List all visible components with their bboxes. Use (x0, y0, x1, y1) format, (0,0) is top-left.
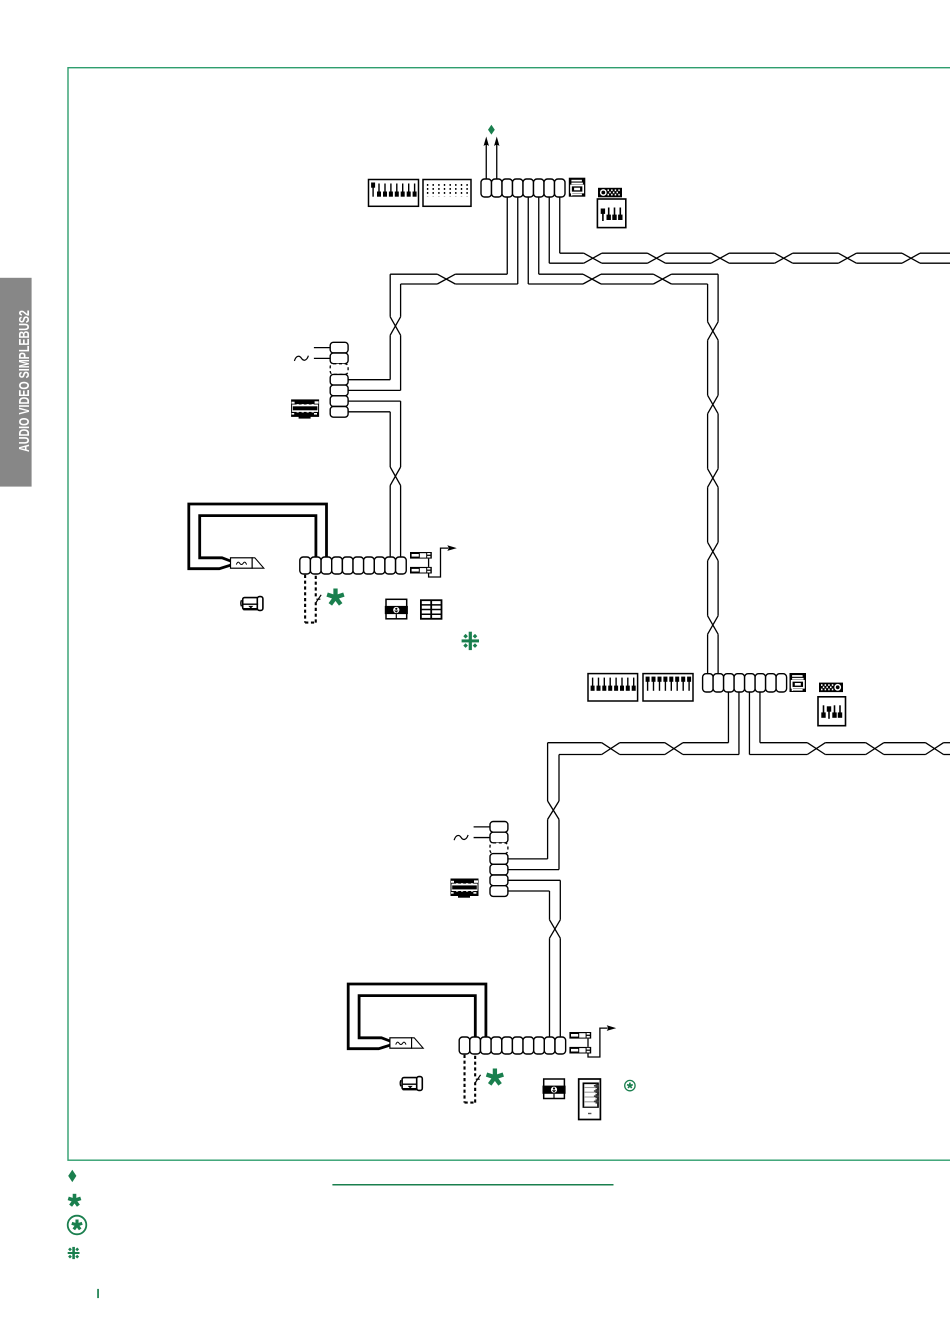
wire twisted pair segment (547, 743, 549, 801)
power supply unit PS2 terminal stack (490, 822, 508, 897)
wire pair twist crossover (775, 253, 793, 263)
wire left branch upper segment (455, 273, 507, 275)
terminal block monitor M1 bracket terminals (10 terminals) (300, 557, 406, 574)
wire distributor link monitor M1 (428, 559, 430, 567)
power supply transformer module PS1 PSU block (292, 400, 319, 419)
riser continuation arrow L out (484, 137, 489, 180)
monitor hook-up unit monitor M1 (231, 558, 264, 568)
wire twisted pair segment (729, 252, 775, 254)
wire from terminal 5 down (527, 197, 529, 284)
wire PS1 terminal5 to riser down (348, 400, 401, 402)
optional local call button wiring (dashed) monitor M2 (465, 1055, 476, 1103)
DIP switch block S5 [uuuuuuuu] (643, 674, 693, 701)
call button switch blade monitor M2 (475, 1075, 480, 1083)
wire pair twist crossover (708, 469, 719, 487)
wire PS2 terminal4 to riser up (508, 869, 559, 871)
wire twisted pair segment (389, 335, 391, 380)
entrance panel with call buttons icon monitor M2 (579, 1079, 601, 1120)
wire twisted pair segment (547, 819, 549, 859)
power supply transformer module PS2 PSU block (451, 879, 478, 898)
wire from terminal 4 down (517, 197, 519, 284)
wire twisted pair segment (707, 487, 709, 542)
door lock actuator icon monitor M1 (241, 597, 263, 611)
call button switch blade monitor M1 (316, 595, 321, 603)
DIP switch block S2 undefined [????????] (423, 180, 471, 207)
wire from terminal 6 down (538, 197, 540, 274)
wire twisted pair segment (707, 340, 709, 395)
note symbol circled asterisk legend (68, 1216, 87, 1235)
svg-text:AUDIO VIDEO SIMPLEBUS2: AUDIO VIDEO SIMPLEBUS2 (16, 310, 33, 452)
wire AC feed N to PS1 (314, 357, 330, 359)
monitor hook-up unit monitor M2 (390, 1038, 423, 1048)
wire twisted pair segment (549, 891, 551, 920)
wire pair twist crossover (602, 743, 620, 755)
note symbol circled asterisk near monitor M2 (625, 1080, 635, 1090)
wire strip2 terminal4 down (738, 692, 740, 755)
wire strip2 terminal5 down (748, 692, 750, 755)
wire twisted pair segment (760, 742, 807, 744)
riser continuation arrow L out 2 (494, 137, 499, 180)
footer page mark (97, 1289, 99, 1298)
wire twisted pair segment (601, 273, 653, 275)
wire pair twist crossover (550, 920, 561, 938)
wire pair twist crossover (648, 253, 666, 263)
wire pair twist crossover (584, 253, 602, 263)
wire twisted pair segment (825, 742, 866, 744)
monitor bracket outline (inner) monitor M2 (359, 996, 475, 1041)
wire pair twist crossover (548, 801, 559, 819)
wire pair twist crossover (926, 743, 944, 755)
wire twisted pair segment (793, 252, 839, 254)
legend separator line (332, 1184, 613, 1186)
AC mains symbol near PS2 (454, 835, 468, 840)
power supply unit PS1 terminal stack (330, 342, 348, 417)
wire twisted pair segment (549, 938, 551, 1037)
wire twisted pair segment (884, 742, 926, 744)
wire distributor to riser continuation monitor M1 (429, 548, 448, 577)
wire pair twist crossover (902, 253, 920, 263)
wire twisted pair segment (944, 742, 950, 744)
wire twisted pair segment (389, 274, 391, 317)
wire from terminal 3 down (506, 197, 508, 274)
wire distributor to riser continuation monitor M2 (588, 1028, 607, 1057)
jumper/connector icon CV top (598, 188, 622, 198)
floor distributor icon monitor M2 lower (569, 1047, 591, 1054)
wire pair twist crossover (708, 542, 719, 560)
wire PS2 terminal3 to riser up (508, 858, 548, 860)
wire pair twist crossover (708, 395, 719, 413)
wire twisted pair segment (560, 252, 584, 254)
mixer/video module icon second (790, 673, 807, 692)
note symbol asterisk monitor M1 (327, 589, 344, 605)
wire twisted pair segment (671, 273, 718, 275)
wire left branch lower segment (455, 283, 517, 285)
mixer/video module icon top (569, 178, 586, 197)
note symbol dotted cross mid (462, 632, 479, 650)
continuation arrow monitor M2 (607, 1025, 617, 1031)
wire PS2 terminal6 to riser down (508, 890, 550, 892)
wire pair twist crossover (807, 743, 825, 755)
wire PS1 terminal4 to riser up (348, 389, 401, 391)
wire left branch lower (401, 283, 438, 285)
optional local call button wiring (dashed) monitor M1 (305, 575, 316, 623)
terminal block monitor M2 bracket terminals (10 terminals) (459, 1037, 565, 1054)
wire twisted pair segment (602, 252, 648, 254)
continuation arrow monitor M1 (447, 545, 457, 551)
wire pair twist crossover (708, 322, 719, 340)
diagram frame border (68, 68, 950, 1161)
wire twisted pair segment (707, 284, 709, 322)
note symbol asterisk legend (68, 1194, 81, 1206)
wire twisted pair segment (683, 742, 729, 744)
wire AC feed L to PS1 (314, 347, 330, 349)
wire twisted pair segment (856, 252, 902, 254)
wire twisted pair segment (548, 742, 602, 744)
floor distributor icon monitor M1 upper (410, 552, 432, 559)
wire pair twist crossover (653, 274, 671, 284)
note symbol diamond top riser (488, 125, 495, 135)
wire strip2 terminal6 down (759, 692, 761, 743)
wire twisted pair segment (389, 485, 391, 557)
wire twisted pair segment (707, 414, 709, 469)
wire PS1 terminal6 to riser down (348, 411, 390, 413)
jumper/connector icon CV second (819, 683, 843, 693)
wire twisted pair segment (666, 252, 712, 254)
DIP switch block S6 second [dudd] (818, 697, 846, 726)
wire pair twist crossover (838, 253, 856, 263)
wire AC feed L to PS2 (474, 826, 490, 828)
note symbol diamond legend diamond (68, 1170, 76, 1182)
wire twisted pair segment (389, 412, 391, 467)
wire left branch upper (390, 273, 437, 275)
wire AC feed N to PS2 (474, 837, 490, 839)
wire pair twist crossover (390, 317, 400, 335)
wire distributor link monitor M2 (587, 1039, 589, 1047)
wire from terminal 7 down (548, 197, 550, 263)
monitor bracket outline (outer) monitor M1 (189, 504, 327, 569)
wire pair twist crossover (583, 274, 601, 284)
AC mains symbol near PS1 (294, 356, 308, 361)
DIP switch block S3 top [uddd] (597, 199, 625, 228)
door lock actuator icon monitor M2 (400, 1077, 422, 1091)
monitor bracket outline (inner) monitor M1 (200, 516, 316, 561)
wire pair twist crossover (437, 274, 455, 284)
wire strip2 terminal3 down (727, 692, 729, 743)
floor distributor icon monitor M1 lower (410, 567, 432, 574)
wire twisted pair segment (707, 561, 709, 616)
terminal block TS-top (8 terminals) (481, 179, 565, 197)
monitor bracket outline (outer) monitor M2 (348, 984, 486, 1049)
wire pair twist crossover (665, 743, 683, 755)
note symbol asterisk monitor M2 (487, 1069, 504, 1085)
wire PS1 terminal3 to riser up (348, 379, 390, 381)
entrance panel speaker module icon monitor M2 (543, 1079, 566, 1099)
wire from terminal 8 down (559, 197, 561, 253)
wire twisted pair segment (707, 634, 709, 674)
terminal block TS-2 (8 terminals) (703, 674, 787, 692)
wire twisted pair segment (539, 273, 583, 275)
page sidebar tab AUDIO VIDEO SIMPLEBUS2 (0, 278, 33, 487)
DIP switch block S4 [dddddddd] (588, 674, 638, 701)
button expansion grid icon monitor M1 (421, 600, 442, 619)
wire twisted pair segment (620, 742, 665, 744)
note symbol dotted cross legend (68, 1247, 80, 1259)
wire twisted pair segment (920, 252, 950, 254)
wire pair twist crossover (390, 467, 400, 485)
DIP switch block S1 programming [uddddddd] (369, 180, 419, 207)
wire PS2 terminal5 to riser down (508, 879, 560, 881)
wire pair twist crossover (708, 616, 719, 634)
wire pair twist crossover (866, 743, 884, 755)
floor distributor icon monitor M2 upper (569, 1032, 591, 1039)
wire pair twist crossover (711, 253, 729, 263)
entrance panel speaker module icon monitor M1 (385, 599, 408, 619)
